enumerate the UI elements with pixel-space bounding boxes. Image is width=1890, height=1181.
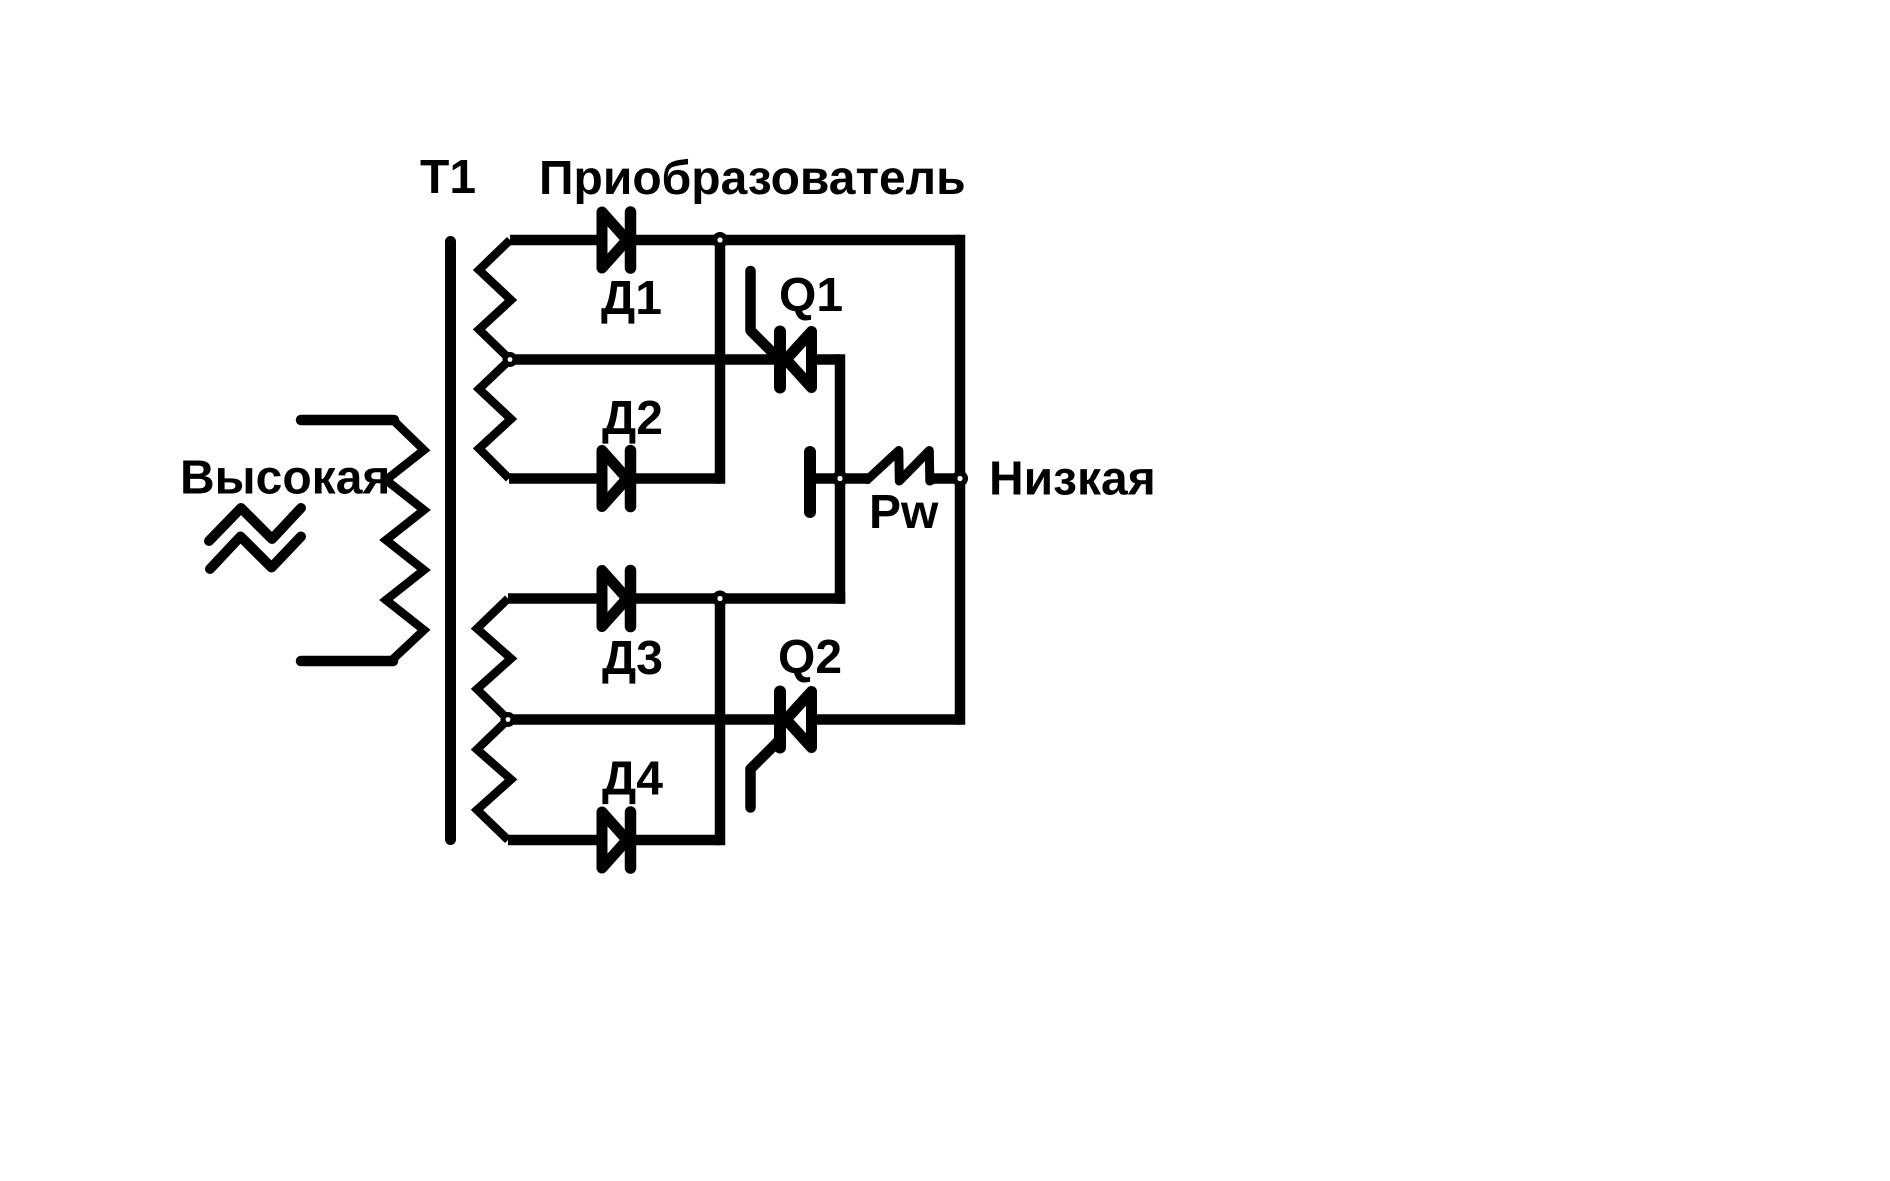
transformer T1 core [445, 242, 456, 840]
junction node at capacitor/resistor [832, 471, 848, 487]
wire x720 lower vertical [715, 599, 726, 846]
svg-text:Д2: Д2 [602, 392, 663, 445]
wire Q1 row (upper center tap) [510, 354, 840, 365]
svg-text:Т1: Т1 [420, 151, 476, 204]
svg-text:Pw: Pw [869, 486, 939, 539]
resistor Pw [840, 473, 870, 484]
svg-text:Q2: Q2 [778, 631, 842, 684]
svg-text:Д4: Д4 [602, 753, 663, 806]
thyristor Q2 [751, 692, 812, 808]
wire D4 row [508, 835, 720, 846]
junction node on D3 row [712, 591, 728, 607]
junction node upper center tap [503, 352, 518, 367]
svg-text:Д1: Д1 [601, 272, 662, 325]
secondary winding upper half of T1 [479, 240, 511, 479]
svg-text:Высокая: Высокая [180, 452, 390, 505]
wire x720 upper vertical [715, 240, 726, 484]
capacitor plate [804, 452, 816, 512]
wire right vertical rail [955, 235, 966, 725]
svg-text:Q1: Q1 [779, 269, 843, 322]
AC source symbol upper stroke [209, 508, 301, 541]
junction node on top rail [712, 232, 728, 248]
wire Q2 row (lower center tap) [508, 714, 960, 725]
diode D1 [602, 212, 631, 268]
diode D3 [602, 571, 631, 627]
svg-text:Д3: Д3 [602, 632, 663, 685]
diode D4 [602, 812, 631, 868]
wire D3 row [508, 593, 845, 604]
capacitor stub wire [810, 473, 840, 484]
svg-text:Низкая: Низкая [989, 453, 1156, 506]
junction node at output [952, 471, 968, 487]
diode D2 [602, 451, 631, 507]
wire D2 row [509, 473, 720, 484]
AC source symbol lower stroke [210, 537, 301, 570]
junction node lower center tap [501, 712, 516, 727]
secondary winding lower half of T1 [477, 599, 511, 841]
svg-text:Приобразователь: Приобразователь [539, 152, 966, 205]
primary winding of T1 [301, 415, 394, 426]
wire x840 vertical [835, 354, 846, 604]
wire top rail (D1 row) [510, 235, 960, 246]
thyristor Q1 [751, 271, 812, 388]
